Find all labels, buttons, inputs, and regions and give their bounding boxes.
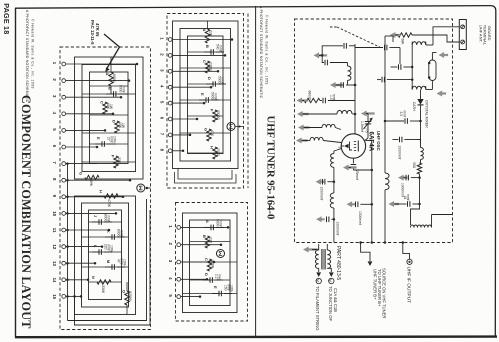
svg-text:A: A: [105, 73, 110, 76]
svg-text:UHF TUNER B+: UHF TUNER B+: [372, 269, 377, 300]
svg-text:22K: 22K: [208, 30, 212, 37]
svg-text:200K: 200K: [210, 260, 214, 269]
svg-text:TO FILAMENT STRING: TO FILAMENT STRING: [315, 286, 320, 331]
svg-text:M: M: [328, 279, 332, 282]
svg-text:PAC 13-11-5: PAC 13-11-5: [90, 20, 95, 45]
svg-text:A PHOTOFACT STANDARD NOTATION: A PHOTOFACT STANDARD NOTATION SCHEMATIC: [25, 10, 29, 103]
svg-text:E: E: [96, 137, 101, 140]
svg-text:COMPONENT COMBINATION LAYOUT: COMPONENT COMBINATION LAYOUT: [19, 95, 33, 329]
svg-text:13: 13: [52, 261, 57, 266]
svg-text:3300Ω: 3300Ω: [216, 110, 220, 120]
svg-text:G: G: [79, 172, 84, 175]
svg-text:E: E: [213, 286, 218, 289]
svg-text:22K: 22K: [208, 237, 212, 244]
svg-text:G: G: [204, 128, 209, 131]
svg-text:1000mmf: 1000mmf: [397, 146, 401, 160]
svg-text:H: H: [99, 190, 104, 193]
svg-text:39K: 39K: [89, 180, 93, 187]
svg-text:1000mmf: 1000mmf: [336, 222, 340, 236]
svg-text:B: B: [108, 87, 113, 90]
svg-text:meg: meg: [218, 274, 222, 281]
svg-text:68K: 68K: [401, 39, 405, 46]
svg-text:TO UHF TUNER B+: TO UHF TUNER B+: [377, 269, 382, 307]
svg-text:UHF IF OUTPUT: UHF IF OUTPUT: [405, 267, 411, 304]
svg-text:mmf: mmf: [403, 111, 407, 117]
svg-text:11: 11: [52, 228, 57, 233]
svg-text:A PHOTOFACT STANDARD NOTATION: A PHOTOFACT STANDARD NOTATION SCHEMATIC: [259, 6, 263, 99]
svg-text:© Howard W. Sams & Co., Inc. 1: © Howard W. Sams & Co., Inc. 1959: [31, 19, 35, 89]
svg-text:mmf: mmf: [122, 86, 126, 92]
svg-text:25mmf: 25mmf: [355, 170, 359, 180]
svg-text:A: A: [205, 220, 210, 223]
svg-text:SOURCE ON VHF TUNER: SOURCE ON VHF TUNER: [381, 268, 386, 318]
svg-text:C: C: [202, 60, 207, 63]
svg-text:mmf: mmf: [120, 230, 124, 236]
svg-text:1.5mmf: 1.5mmf: [360, 121, 364, 132]
svg-text:mmf: mmf: [221, 77, 225, 83]
svg-text:© Howard W. Sams & Co., Inc. 1: © Howard W. Sams & Co., Inc. 1959: [264, 15, 268, 85]
svg-text:6AF4A: 6AF4A: [367, 132, 374, 152]
svg-text:10%: 10%: [110, 245, 114, 252]
svg-text:C: C: [204, 258, 209, 261]
svg-text:mmf: mmf: [219, 220, 223, 226]
svg-text:6800Ω: 6800Ω: [308, 91, 312, 101]
svg-text:K: K: [106, 230, 111, 233]
svg-text:mmf: mmf: [406, 194, 410, 200]
svg-text:14: 14: [52, 278, 57, 283]
svg-text:mmf: mmf: [214, 93, 218, 99]
svg-text:39Ω: 39Ω: [412, 162, 416, 169]
svg-text:TO JUNCTION OF: TO JUNCTION OF: [328, 286, 333, 321]
svg-text:PART 480-13-5: PART 480-13-5: [335, 246, 341, 280]
svg-text:A: A: [202, 29, 207, 32]
svg-text:C: C: [100, 101, 105, 104]
svg-text:330K: 330K: [101, 285, 105, 294]
svg-text:B: B: [205, 45, 210, 48]
svg-text:mmf: mmf: [107, 215, 111, 221]
svg-text:220Ω: 220Ω: [208, 62, 212, 71]
svg-text:UHF TUNER 95-164-0: UHF TUNER 95-164-0: [264, 116, 276, 220]
svg-text:12: 12: [52, 244, 57, 249]
svg-text:3.3: 3.3: [399, 112, 403, 117]
svg-text:BOARD: BOARD: [487, 26, 492, 40]
svg-text:3: 3: [338, 147, 342, 149]
svg-text:10%: 10%: [123, 259, 127, 266]
svg-text:H: H: [210, 146, 215, 149]
svg-text:82000: 82000: [128, 291, 132, 301]
svg-text:PAGE 18: PAGE 18: [2, 3, 11, 34]
svg-text:1000mmf: 1000mmf: [358, 211, 362, 225]
svg-text:mmf: mmf: [332, 94, 336, 100]
svg-text:47K: 47K: [210, 130, 214, 137]
svg-text:CATH: CATH: [412, 102, 416, 111]
svg-text:M: M: [106, 260, 111, 263]
svg-text:10: 10: [52, 211, 57, 216]
svg-text:E: E: [200, 93, 205, 96]
svg-text:10%: 10%: [230, 285, 234, 292]
svg-text:18: 18: [403, 196, 407, 200]
svg-text:TERMINAL: TERMINAL: [483, 25, 488, 46]
svg-text:D: D: [204, 273, 209, 276]
svg-text:10%: 10%: [113, 136, 117, 143]
svg-text:33K: 33K: [117, 157, 121, 164]
svg-text:15: 15: [52, 294, 57, 299]
svg-text:470K: 470K: [107, 199, 111, 208]
svg-text:CRYSTAL MIXER: CRYSTAL MIXER: [424, 100, 428, 128]
svg-text:M: M: [315, 279, 319, 282]
svg-text:D: D: [207, 77, 212, 80]
svg-text:270Ω: 270Ω: [216, 148, 220, 157]
svg-text:UHF OSC: UHF OSC: [376, 131, 381, 152]
svg-text:J: J: [93, 215, 98, 217]
svg-text:UHF ANT.: UHF ANT.: [478, 25, 483, 43]
svg-text:680K: 680K: [112, 74, 116, 83]
svg-text:mmf: mmf: [219, 45, 223, 51]
svg-text:1.5: 1.5: [329, 95, 333, 100]
svg-text:N: N: [91, 276, 96, 279]
svg-text:C1A && C1B: C1A && C1B: [333, 288, 338, 312]
svg-text:B: B: [202, 235, 207, 238]
svg-text:1000mmf: 1000mmf: [319, 187, 323, 201]
svg-text:O: O: [122, 290, 127, 293]
svg-text:D: D: [112, 120, 117, 123]
